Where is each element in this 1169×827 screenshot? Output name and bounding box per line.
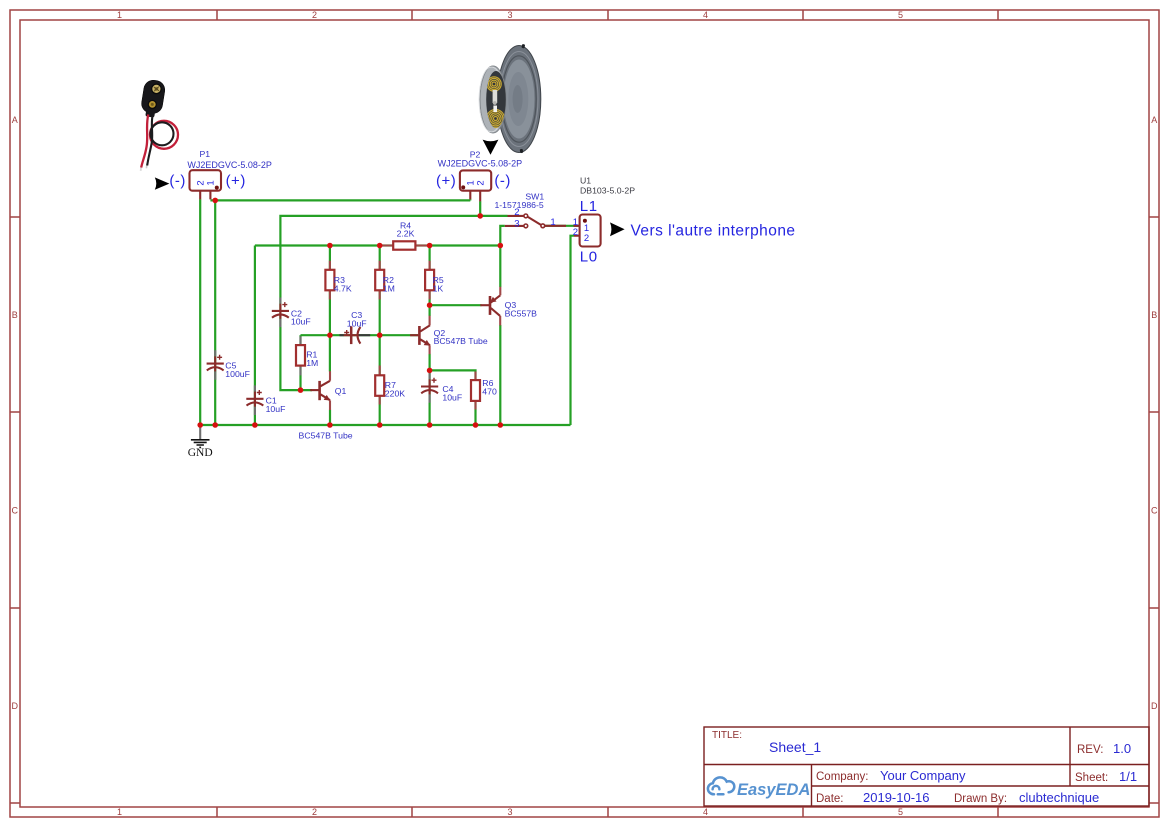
svg-text:Vers l'autre interphone: Vers l'autre interphone xyxy=(631,223,796,240)
svg-text:2: 2 xyxy=(514,207,519,218)
svg-text:P1: P1 xyxy=(199,149,210,159)
svg-text:DB103-5.0-2P: DB103-5.0-2P xyxy=(580,186,635,196)
svg-text:10uF: 10uF xyxy=(291,317,311,327)
svg-text:10uF: 10uF xyxy=(347,318,367,328)
svg-text:1M: 1M xyxy=(306,358,318,368)
svg-text:A: A xyxy=(1151,115,1157,125)
svg-text:100uF: 100uF xyxy=(225,369,250,379)
svg-text:5: 5 xyxy=(898,10,903,20)
svg-text:Q1: Q1 xyxy=(335,386,347,396)
svg-text:4.7K: 4.7K xyxy=(334,284,352,294)
svg-text:2: 2 xyxy=(475,180,486,185)
svg-text:C: C xyxy=(12,505,19,515)
svg-text:470: 470 xyxy=(482,387,497,397)
svg-text:2: 2 xyxy=(584,233,589,244)
svg-text:TITLE:: TITLE: xyxy=(712,730,742,741)
svg-text:(+): (+) xyxy=(436,172,456,189)
svg-text:Sheet:: Sheet: xyxy=(1075,772,1108,784)
svg-text:3: 3 xyxy=(507,807,512,817)
svg-text:BC547B Tube: BC547B Tube xyxy=(434,336,488,346)
svg-text:10uF: 10uF xyxy=(442,392,462,402)
svg-text:3: 3 xyxy=(507,10,512,20)
svg-text:1/1: 1/1 xyxy=(1119,769,1137,784)
svg-text:2.2K: 2.2K xyxy=(397,229,415,239)
svg-text:Company:: Company: xyxy=(816,771,868,783)
svg-text:Drawn By:: Drawn By: xyxy=(954,793,1007,805)
svg-text:GND: GND xyxy=(188,447,213,459)
svg-text:220K: 220K xyxy=(385,389,405,399)
svg-text:Your Company: Your Company xyxy=(880,768,966,783)
svg-text:2: 2 xyxy=(312,10,317,20)
svg-text:clubtechnique: clubtechnique xyxy=(1019,790,1099,805)
svg-text:BC547B Tube: BC547B Tube xyxy=(299,431,353,441)
svg-text:(+): (+) xyxy=(226,172,246,189)
svg-text:Date:: Date: xyxy=(816,793,844,805)
svg-text:1M: 1M xyxy=(383,284,395,294)
svg-text:2: 2 xyxy=(573,227,578,238)
svg-text:4: 4 xyxy=(703,10,708,20)
svg-text:A: A xyxy=(12,115,18,125)
svg-text:U1: U1 xyxy=(580,175,591,185)
svg-text:3: 3 xyxy=(514,218,519,229)
svg-text:2: 2 xyxy=(312,807,317,817)
svg-text:L0: L0 xyxy=(580,248,598,265)
svg-text:2019-10-16: 2019-10-16 xyxy=(863,790,930,805)
svg-text:B: B xyxy=(12,310,18,320)
svg-text:WJ2EDGVC-5.08-2P: WJ2EDGVC-5.08-2P xyxy=(187,160,272,170)
svg-text:1: 1 xyxy=(117,807,122,817)
svg-text:C: C xyxy=(1151,505,1158,515)
svg-text:WJ2EDGVC-5.08-2P: WJ2EDGVC-5.08-2P xyxy=(438,159,523,169)
svg-text:1: 1 xyxy=(117,10,122,20)
svg-text:L1: L1 xyxy=(580,198,598,215)
svg-text:REV:: REV: xyxy=(1077,744,1103,756)
svg-text:1K: 1K xyxy=(433,284,444,294)
svg-text:4: 4 xyxy=(703,807,708,817)
svg-text:Sheet_1: Sheet_1 xyxy=(769,739,821,755)
svg-text:1: 1 xyxy=(550,217,555,228)
svg-text:10uF: 10uF xyxy=(266,404,286,414)
svg-text:(-): (-) xyxy=(169,172,186,189)
svg-text:1: 1 xyxy=(206,180,217,185)
svg-text:5: 5 xyxy=(898,807,903,817)
svg-text:D: D xyxy=(12,701,19,711)
svg-text:B: B xyxy=(1151,310,1157,320)
svg-text:EasyEDA: EasyEDA xyxy=(737,781,810,799)
svg-text:(-): (-) xyxy=(494,172,511,189)
svg-text:D: D xyxy=(1151,701,1158,711)
svg-text:1.0: 1.0 xyxy=(1113,741,1131,756)
svg-text:BC557B: BC557B xyxy=(505,308,538,318)
